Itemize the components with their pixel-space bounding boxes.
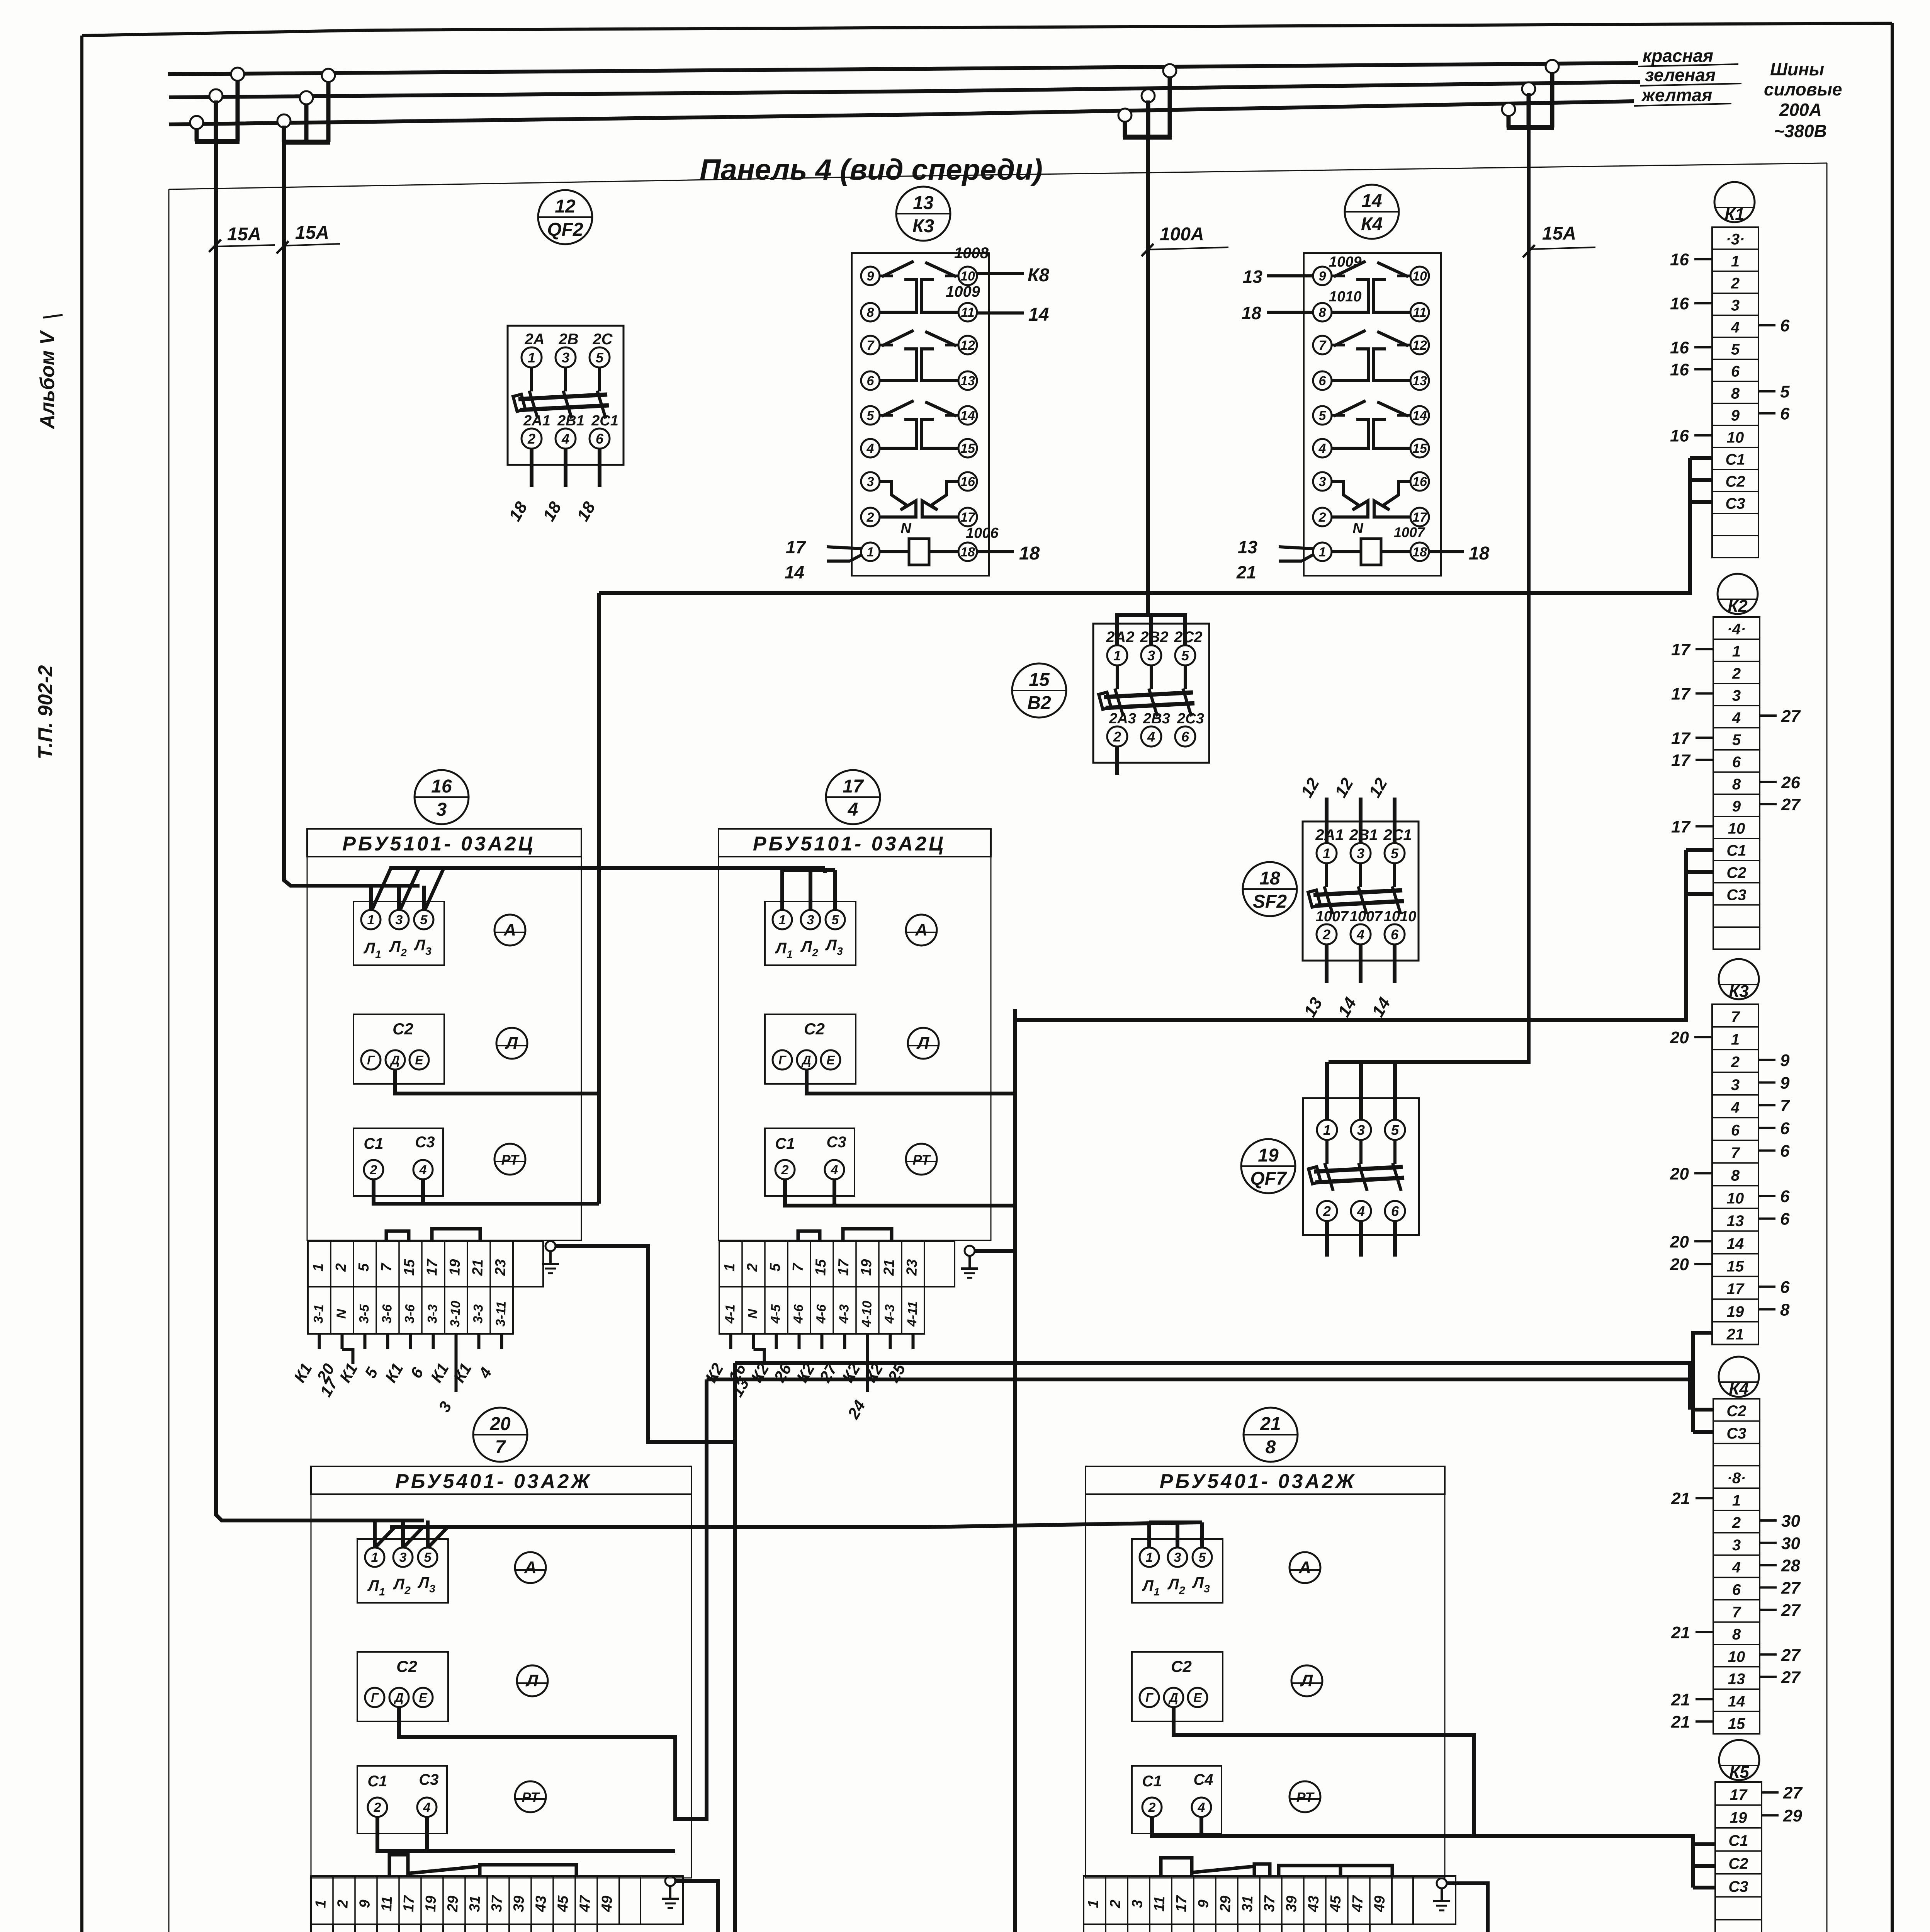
svg-text:С3: С3: [419, 1771, 438, 1788]
svg-text:21: 21: [1726, 1326, 1744, 1343]
svg-text:47: 47: [577, 1895, 594, 1913]
svg-text:14: 14: [960, 408, 975, 423]
svg-text:6: 6: [1391, 1203, 1399, 1219]
svg-text:1: 1: [528, 350, 535, 366]
svg-text:6: 6: [1731, 363, 1740, 380]
svg-text:РБУ5401- 03А2Ж: РБУ5401- 03А2Ж: [395, 1470, 592, 1493]
svg-text:21: 21: [1671, 1690, 1690, 1709]
svg-text:QF7: QF7: [1250, 1168, 1287, 1189]
svg-text:7: 7: [1731, 1145, 1740, 1162]
svg-text:N: N: [1352, 520, 1364, 537]
device label 15/B2: [1012, 663, 1066, 718]
relay K3 coil row: [861, 543, 880, 561]
circuit breaker QF7 feed drops: [1325, 1062, 1329, 1120]
svg-text:зеленая: зеленая: [1645, 65, 1716, 85]
starter RBU21 box C2: [1132, 1652, 1223, 1721]
svg-text:РБУ5101- 03А2Ц: РБУ5101- 03А2Ц: [753, 833, 946, 855]
svg-text:16: 16: [431, 776, 452, 797]
terminal strip K4: [1713, 1399, 1760, 1734]
ground of starter 16: [545, 1241, 556, 1251]
svg-text:Л: Л: [367, 1577, 379, 1594]
wire K3 strip row21 to K4 C cells: [1693, 1333, 1712, 1432]
svg-text:4-1: 4-1: [722, 1304, 738, 1324]
svg-text:17: 17: [1412, 510, 1428, 525]
svg-text:14: 14: [1361, 191, 1382, 211]
svg-text:18: 18: [1259, 868, 1280, 889]
svg-text:Е: Е: [1193, 1691, 1202, 1705]
svg-text:11: 11: [961, 305, 974, 320]
starter RBU17 box C1C3: [765, 1128, 855, 1196]
breaker QF2 body: [508, 326, 624, 465]
svg-text:6: 6: [1181, 729, 1189, 745]
svg-text:16: 16: [1412, 474, 1427, 489]
svg-text:2В: 2В: [558, 331, 578, 348]
starter RBU17 relay RT: [906, 1144, 937, 1175]
svg-text:31: 31: [1239, 1895, 1256, 1912]
svg-text:4: 4: [1732, 1559, 1741, 1576]
svg-text:Л: Л: [1142, 1577, 1154, 1594]
svg-text:С1: С1: [1725, 451, 1745, 468]
border frame: [82, 23, 1892, 36]
svg-text:9: 9: [1732, 798, 1741, 815]
fuse rating label 15A right: [1523, 245, 1535, 257]
breaker SF2 bottom terminals: [1317, 924, 1337, 944]
svg-text:3: 3: [837, 945, 843, 957]
starter RBU21 frame: [1086, 1466, 1445, 1878]
svg-text:15: 15: [1728, 1715, 1745, 1732]
svg-text:2В2: 2В2: [1140, 629, 1168, 646]
svg-text:3: 3: [1129, 1900, 1146, 1908]
starter RBU16 lamp L: [496, 1028, 527, 1059]
relay K4 left leads: [1267, 274, 1313, 277]
svg-text:А: А: [503, 920, 516, 939]
svg-text:19: 19: [423, 1895, 439, 1912]
svg-text:1: 1: [1154, 1586, 1160, 1598]
svg-text:К3: К3: [912, 216, 934, 236]
terminal strip 16row1: [308, 1241, 513, 1287]
svg-text:2: 2: [1732, 1514, 1741, 1531]
svg-text:27: 27: [1781, 1601, 1801, 1620]
breaker QF2 mechanism bar: [518, 395, 607, 399]
svg-text:Шины: Шины: [1770, 59, 1824, 79]
svg-text:4: 4: [1356, 927, 1364, 942]
strip 16 jumpers: [386, 1231, 409, 1241]
svg-text:1: 1: [1731, 1031, 1740, 1048]
breaker QF2 bottom terminals: [522, 429, 542, 449]
svg-text:16: 16: [1670, 338, 1689, 357]
svg-text:15А: 15А: [1542, 223, 1576, 244]
svg-text:~380В: ~380В: [1774, 121, 1827, 141]
svg-text:27: 27: [1781, 1646, 1801, 1665]
svg-text:2С3: 2С3: [1177, 711, 1204, 727]
svg-text:С3: С3: [1725, 495, 1745, 512]
svg-text:QF2: QF2: [547, 219, 583, 240]
svg-text:N: N: [900, 520, 912, 537]
svg-text:С1: С1: [364, 1135, 383, 1152]
svg-text:7: 7: [1731, 1009, 1740, 1026]
starter RBU17 lamp A: [906, 915, 937, 946]
wire ground17 to vertical: [975, 1249, 1015, 1253]
device label 14/K4: [1345, 185, 1399, 239]
wire starter16 D to vertical: [395, 1070, 599, 1094]
svg-text:20: 20: [1670, 1255, 1689, 1274]
svg-text:1: 1: [367, 913, 375, 927]
svg-text:Л: Л: [825, 937, 837, 954]
svg-text:4: 4: [1731, 1099, 1740, 1116]
svg-text:Л: Л: [417, 1574, 430, 1591]
wire ground16 to node: [556, 1246, 735, 1442]
svg-text:4-6: 4-6: [814, 1304, 829, 1324]
svg-text:4: 4: [1198, 1800, 1205, 1815]
svg-text:18: 18: [1469, 543, 1490, 564]
svg-text:3-3: 3-3: [425, 1304, 440, 1324]
svg-text:17: 17: [786, 537, 807, 557]
device label 18/SF2: [1243, 862, 1297, 916]
svg-text:А: А: [1298, 1558, 1311, 1577]
svg-text:Е: Е: [826, 1053, 835, 1067]
svg-text:С3: С3: [1728, 1878, 1748, 1895]
svg-text:2: 2: [1323, 1203, 1331, 1219]
svg-text:21: 21: [1671, 1623, 1690, 1642]
svg-text:3: 3: [1147, 648, 1155, 663]
switch B2 feed bracket: [1117, 615, 1185, 645]
svg-text:6: 6: [1780, 1210, 1790, 1229]
svg-text:3: 3: [807, 913, 814, 927]
svg-text:2А: 2А: [524, 331, 544, 348]
svg-text:Г: Г: [367, 1053, 375, 1067]
tap group 4 on buses: [1546, 60, 1559, 73]
svg-text:28: 28: [1781, 1556, 1800, 1575]
wire vertical from K1 feeder to starter 16: [597, 593, 601, 1204]
svg-text:2: 2: [1322, 927, 1330, 942]
strip 16 leads: [318, 1334, 321, 1349]
svg-text:1008: 1008: [954, 245, 989, 262]
svg-text:4: 4: [1732, 709, 1741, 726]
svg-text:20: 20: [1670, 1232, 1689, 1251]
svg-text:27: 27: [1781, 1578, 1801, 1597]
svg-text:17: 17: [1671, 640, 1691, 659]
svg-text:желтая: желтая: [1641, 85, 1712, 105]
wire link 16 to 17 diagonals: [372, 868, 391, 909]
svg-text:2В3: 2В3: [1143, 711, 1170, 727]
svg-text:3-3: 3-3: [471, 1304, 486, 1324]
svg-text:С2: С2: [1728, 1855, 1748, 1872]
svg-text:1: 1: [1323, 845, 1330, 861]
terminal block K3 label: [1719, 959, 1759, 999]
starter RBU20 relay RT: [515, 1781, 546, 1812]
breaker SF2 top terminals: [1317, 843, 1337, 863]
svg-text:2: 2: [1731, 1054, 1740, 1071]
starter RBU16 box C1C3: [353, 1128, 443, 1196]
svg-text:30: 30: [1781, 1534, 1800, 1553]
svg-text:1: 1: [779, 913, 786, 927]
terminal strip of starter 20 row2: [311, 1924, 333, 1932]
wire link 20 to 21 diagonals: [376, 1527, 395, 1546]
svg-text:14: 14: [1028, 304, 1049, 325]
svg-text:4-10: 4-10: [859, 1301, 875, 1328]
svg-text:2В1: 2В1: [1349, 827, 1378, 844]
svg-text:5: 5: [767, 1263, 784, 1272]
svg-text:2С2: 2С2: [1174, 629, 1202, 646]
svg-text:10: 10: [1727, 1190, 1744, 1207]
svg-text:3: 3: [1731, 297, 1740, 314]
svg-text:43: 43: [533, 1895, 549, 1913]
svg-text:Л: Л: [775, 940, 787, 957]
breaker B2 top terminals: [1107, 645, 1127, 665]
starter RBU16 box C2: [353, 1014, 444, 1084]
wire feeder mid (100A) to B2: [1146, 100, 1150, 615]
svg-text:19: 19: [1730, 1810, 1747, 1827]
svg-text:РБУ5101- 03А2Ц: РБУ5101- 03А2Ц: [342, 833, 535, 855]
svg-text:17: 17: [1671, 751, 1691, 770]
svg-text:21: 21: [1671, 1713, 1690, 1731]
wire starter20 D to K4: [399, 1379, 707, 1819]
starter RBU16 frame: [307, 829, 581, 1240]
svg-text:2: 2: [1107, 1900, 1124, 1909]
svg-text:А: А: [915, 920, 928, 939]
svg-text:2В1: 2В1: [557, 413, 584, 429]
svg-text:1: 1: [379, 1586, 385, 1598]
svg-text:43: 43: [1305, 1895, 1322, 1913]
svg-text:2А3: 2А3: [1109, 711, 1136, 727]
breaker QF2 lower leads: [530, 449, 533, 487]
svg-text:Д: Д: [801, 1053, 811, 1067]
svg-text:5: 5: [1391, 1122, 1399, 1138]
wire bracket into starter 21: [1147, 1522, 1151, 1548]
svg-text:19: 19: [1727, 1303, 1744, 1320]
svg-text:1007: 1007: [1394, 524, 1425, 540]
svg-text:1007: 1007: [1350, 908, 1383, 925]
svg-text:силовые: силовые: [1764, 79, 1842, 99]
svg-text:13: 13: [960, 374, 975, 388]
relay K4 coil row: [1313, 543, 1332, 561]
svg-text:10: 10: [1727, 429, 1744, 446]
svg-text:6: 6: [1319, 374, 1327, 388]
svg-text:15А: 15А: [227, 224, 261, 245]
svg-text:2: 2: [1318, 510, 1326, 525]
svg-text:8: 8: [1319, 305, 1326, 320]
terminal strip K2: [1713, 617, 1760, 949]
svg-text:10: 10: [960, 269, 975, 284]
svg-text:16: 16: [1670, 294, 1689, 313]
switch B2 bottom stub: [1115, 747, 1119, 775]
svg-text:1: 1: [1146, 1550, 1153, 1565]
svg-text:19: 19: [858, 1259, 875, 1276]
svg-text:1: 1: [310, 1263, 327, 1272]
svg-text:7: 7: [790, 1262, 807, 1272]
svg-text:3: 3: [1174, 1550, 1181, 1565]
svg-text:16: 16: [1670, 427, 1689, 446]
svg-text:2: 2: [404, 1584, 411, 1596]
svg-text:8: 8: [1732, 1626, 1741, 1643]
svg-text:С3: С3: [415, 1134, 435, 1151]
svg-text:8: 8: [1731, 1167, 1740, 1184]
svg-text:6: 6: [1780, 1142, 1790, 1161]
svg-text:5: 5: [420, 913, 428, 927]
starter RBU20 lamp A: [515, 1552, 546, 1583]
svg-text:5: 5: [1391, 845, 1399, 861]
svg-text:В2: В2: [1027, 693, 1051, 713]
svg-text:1006: 1006: [966, 525, 999, 541]
svg-text:3-1: 3-1: [311, 1304, 326, 1323]
svg-text:А: А: [524, 1558, 537, 1577]
svg-text:3: 3: [867, 474, 874, 489]
svg-text:Г: Г: [778, 1053, 787, 1067]
svg-text:17: 17: [1671, 685, 1691, 704]
svg-text:7: 7: [495, 1437, 506, 1458]
svg-text:1009: 1009: [946, 283, 980, 300]
svg-text:13: 13: [913, 193, 934, 213]
breaker SF2 lower leads: [1325, 944, 1329, 983]
ground of starter 21: [1437, 1878, 1447, 1888]
svg-text:1: 1: [371, 1550, 379, 1565]
svg-text:17: 17: [1173, 1895, 1190, 1912]
svg-text:С1: С1: [1142, 1773, 1162, 1790]
svg-text:13: 13: [1243, 267, 1263, 287]
svg-text:39: 39: [511, 1895, 527, 1912]
svg-text:18: 18: [1412, 545, 1427, 560]
svg-text:К4: К4: [1361, 214, 1383, 235]
svg-text:1: 1: [1319, 545, 1326, 560]
svg-text:20: 20: [1670, 1028, 1689, 1047]
wire starter16 C1C3 to vertical: [374, 1179, 599, 1204]
svg-text:29: 29: [1783, 1806, 1802, 1825]
svg-text:1: 1: [867, 545, 874, 560]
svg-text:19: 19: [447, 1259, 463, 1276]
svg-text:20: 20: [489, 1414, 511, 1434]
svg-text:Д: Д: [1168, 1691, 1178, 1705]
wire starter21 C1C4 to K5 C cells: [1152, 1817, 1693, 1888]
svg-text:С3: С3: [826, 1134, 846, 1151]
svg-text:6: 6: [1732, 753, 1741, 770]
svg-text:3: 3: [425, 945, 432, 957]
svg-text:К1: К1: [1724, 205, 1745, 224]
svg-text:17: 17: [1727, 1281, 1745, 1298]
circuit breaker QF7 bottom stubs: [1325, 1221, 1329, 1257]
bus green (зеленая): [169, 82, 1640, 97]
svg-text:3-11: 3-11: [493, 1301, 509, 1327]
terminal strip 20row1: [311, 1876, 619, 1924]
svg-text:21: 21: [1260, 1414, 1281, 1434]
svg-text:5: 5: [1319, 408, 1327, 423]
starter RBU21 lamp A: [1289, 1552, 1320, 1583]
svg-text:5: 5: [1780, 383, 1790, 401]
svg-text:47: 47: [1349, 1895, 1366, 1913]
wire K2 C-cells feeder: [1015, 850, 1686, 1020]
svg-text:2А1: 2А1: [523, 413, 550, 429]
svg-text:18: 18: [960, 545, 975, 560]
svg-text:13: 13: [1728, 1671, 1745, 1688]
terminal block K5 label: [1719, 1740, 1759, 1780]
svg-text:3: 3: [1732, 687, 1741, 704]
svg-text:3-10: 3-10: [448, 1301, 463, 1327]
svg-text:4: 4: [419, 1163, 427, 1177]
svg-text:2А2: 2А2: [1106, 629, 1134, 646]
device label 19/QF7: [1241, 1139, 1295, 1193]
svg-text:6: 6: [1780, 316, 1790, 335]
wire bracket into starter 20: [373, 1520, 377, 1548]
svg-text:200А: 200А: [1779, 100, 1822, 120]
relay K4 body: [1304, 253, 1441, 576]
svg-text:9: 9: [1319, 269, 1326, 284]
svg-text:2: 2: [812, 947, 818, 959]
wire bracket into starter 17: [823, 868, 827, 873]
svg-text:РТ: РТ: [522, 1789, 540, 1805]
svg-text:С2: С2: [392, 1020, 413, 1038]
svg-text:15: 15: [1412, 441, 1427, 456]
breaker QF7 mechanism bar: [1314, 1167, 1403, 1172]
breaker SF2 mechanism bar: [1313, 890, 1402, 895]
svg-text:красная: красная: [1643, 46, 1713, 66]
svg-text:18: 18: [1242, 303, 1262, 323]
strip 20 jumpers: [389, 1855, 408, 1876]
wire starter20 C1C3: [377, 1817, 675, 1851]
svg-text:С3: С3: [1726, 1425, 1746, 1442]
svg-text:С1: С1: [367, 1773, 387, 1790]
svg-text:2С: 2С: [592, 331, 613, 348]
svg-text:Л: Л: [363, 940, 375, 957]
starter RBU16 lamp A: [494, 915, 525, 946]
svg-text:4: 4: [561, 431, 569, 447]
svg-text:С1: С1: [775, 1135, 795, 1152]
svg-text:2: 2: [370, 1163, 377, 1177]
svg-text:16: 16: [1670, 250, 1689, 269]
svg-text:9: 9: [357, 1900, 373, 1908]
svg-text:6: 6: [1780, 1278, 1790, 1297]
svg-text:·4·: ·4·: [1727, 621, 1746, 638]
svg-text:19: 19: [1258, 1145, 1279, 1166]
svg-text:11: 11: [1413, 305, 1426, 320]
svg-text:4: 4: [423, 1800, 431, 1815]
svg-text:1007: 1007: [1316, 908, 1349, 925]
svg-text:13: 13: [1238, 537, 1258, 557]
wire feeder left-B (15A) to RBU5101-1: [284, 126, 420, 886]
svg-text:8: 8: [867, 305, 874, 320]
svg-text:5: 5: [1199, 1550, 1206, 1565]
svg-text:1: 1: [1732, 1492, 1741, 1509]
starter RBU21 box C1C3: [1132, 1766, 1222, 1833]
breaker QF7 body: [1303, 1098, 1419, 1235]
svg-text:29: 29: [445, 1895, 461, 1913]
svg-text:7: 7: [1319, 338, 1327, 353]
svg-text:2: 2: [333, 1263, 350, 1272]
terminal block K4 label: [1719, 1357, 1759, 1397]
svg-text:2: 2: [1732, 665, 1741, 682]
relay K4 contacts: [1332, 275, 1345, 277]
svg-text:9: 9: [1780, 1074, 1790, 1093]
svg-text:2: 2: [374, 1800, 381, 1815]
relay K3 left leads: [827, 547, 861, 549]
svg-text:·8·: ·8·: [1727, 1469, 1746, 1486]
device label 17/4: [826, 770, 880, 824]
svg-text:23: 23: [492, 1259, 509, 1276]
svg-text:11: 11: [1151, 1896, 1168, 1912]
svg-text:31: 31: [467, 1895, 483, 1912]
breaker QF2 top terminals: [522, 347, 542, 367]
svg-text:37: 37: [489, 1895, 506, 1912]
device label 13/K3: [896, 187, 950, 241]
svg-text:14: 14: [1727, 1235, 1744, 1252]
svg-text:1: 1: [1731, 253, 1740, 270]
svg-text:4-11: 4-11: [905, 1301, 920, 1327]
ground of starter 17: [965, 1246, 975, 1256]
svg-text:6: 6: [1780, 1119, 1790, 1138]
svg-text:5: 5: [1731, 341, 1740, 358]
svg-text:7: 7: [1780, 1096, 1791, 1115]
svg-text:6: 6: [1391, 927, 1399, 942]
svg-text:4-3: 4-3: [882, 1304, 897, 1324]
svg-text:Л: Л: [1192, 1574, 1204, 1591]
